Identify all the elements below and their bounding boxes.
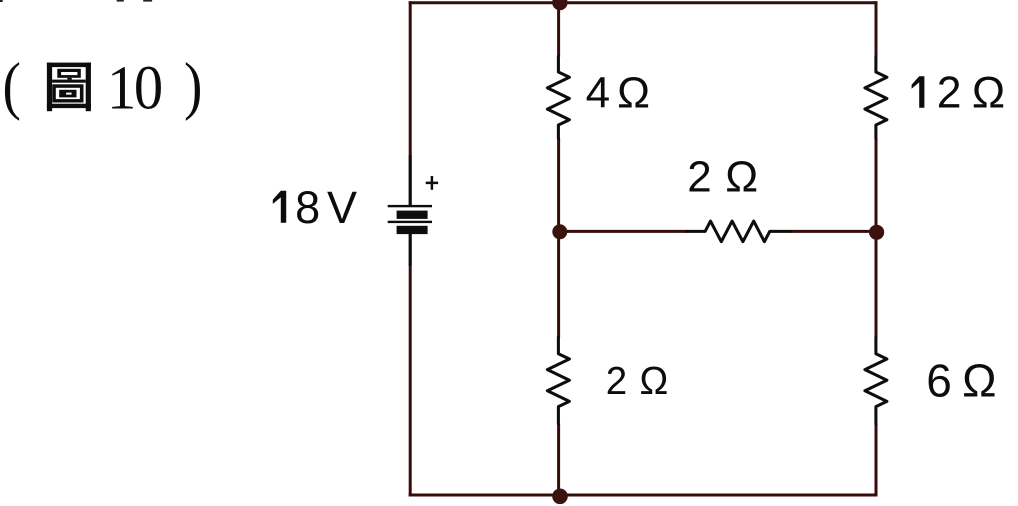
resistor R3 2ohm horizontal — [687, 221, 792, 242]
svg-text:2: 2 — [687, 152, 711, 201]
battery V1 plate thick 1 — [397, 211, 428, 219]
svg-text:8V: 8V — [295, 182, 364, 233]
svg-text:2: 2 — [937, 69, 962, 118]
svg-text:Ω: Ω — [725, 152, 758, 201]
wire middle vertical upper — [557, 1, 560, 57]
battery V1 plate long 1 — [388, 205, 432, 207]
wire left vertical lower — [409, 266, 412, 497]
resistor R2 12ohm — [865, 57, 887, 139]
wire right vertical center — [875, 138, 878, 338]
svg-text:Ω: Ω — [640, 360, 669, 403]
wire left vertical upper — [409, 1, 412, 155]
svg-text:4: 4 — [586, 69, 610, 118]
resistor R5 6ohm — [865, 337, 887, 424]
node middle-right — [869, 225, 884, 240]
label 12 ohm digit 1 — [912, 76, 925, 108]
wire middle vertical center — [557, 138, 560, 338]
svg-text:Ω: Ω — [972, 69, 1005, 118]
node bottom — [552, 489, 568, 505]
node middle-left — [552, 224, 567, 239]
caption CJK glyph tu (figure) — [47, 63, 91, 112]
svg-text:Ω: Ω — [617, 69, 650, 118]
battery V1 bottom lead — [409, 234, 412, 266]
wire right vertical lower — [875, 424, 878, 497]
wire bottom horizontal — [409, 494, 878, 497]
resistor R4 2ohm bottom — [547, 337, 569, 424]
cropped text remnant marks at top edge — [0, 0, 3, 2]
battery V1 top lead — [409, 155, 412, 205]
battery V1 plate thick 2 — [397, 226, 428, 234]
wire right vertical upper — [875, 1, 878, 57]
node top — [552, 0, 567, 10]
wire middle horizontal right part — [791, 230, 877, 233]
resistor R1 4ohm — [547, 57, 569, 139]
wire middle horizontal left part — [559, 230, 687, 233]
svg-text:2: 2 — [606, 360, 627, 403]
wire middle vertical lower — [557, 424, 560, 497]
svg-text:Ω: Ω — [962, 354, 996, 406]
battery V1 plate long 2 — [388, 221, 432, 223]
svg-text:6: 6 — [926, 354, 952, 406]
battery V1 plus sign — [426, 176, 438, 190]
label 18V digit 1 — [273, 191, 286, 223]
svg-text:(: ( — [3, 50, 21, 122]
svg-text:): ) — [184, 50, 202, 122]
wire top horizontal — [409, 1, 878, 4]
svg-text:10: 10 — [107, 54, 161, 123]
